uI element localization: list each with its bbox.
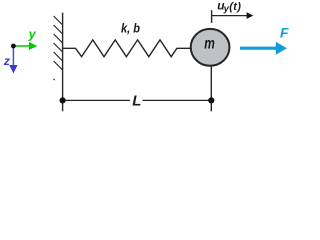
svg-text:m: m [204,36,215,53]
svg-text:k, b: k, b [121,21,140,36]
svg-text:F: F [280,26,289,41]
svg-text:z: z [3,54,11,68]
svg-text:y: y [28,27,37,41]
svg-text:L: L [132,93,141,110]
svg-text:(t): (t) [229,1,241,13]
